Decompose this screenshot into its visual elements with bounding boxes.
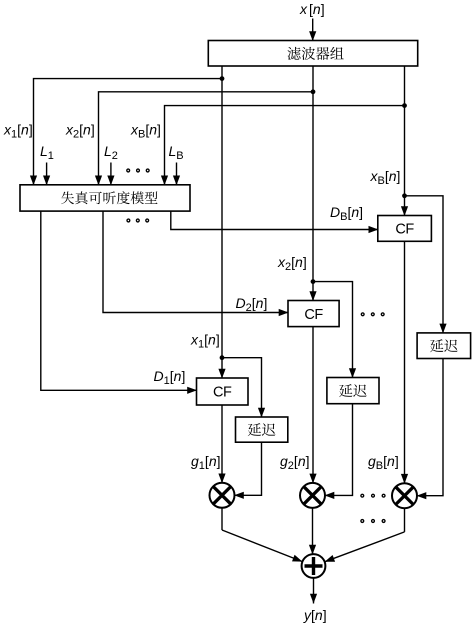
wire: xB to delay B (405, 196, 447, 334)
wire: branch x1 to model (30, 79, 222, 186)
delay B label (430, 339, 458, 352)
CF box 2 (288, 301, 339, 327)
wire: L2 input arrow (107, 163, 114, 186)
ellipsis dots right of CF2 (361, 313, 384, 316)
junction on tap 1 to delay 1 (220, 355, 225, 360)
svg-text:DB[n]: DB[n] (330, 204, 363, 223)
wire: CF 2 output to multiplier 2 (309, 327, 316, 484)
junction on tap 2 to delay 2 (311, 279, 316, 284)
wire: LB input arrow (173, 163, 180, 186)
delay 2 label (339, 384, 367, 397)
ellipsis dots between multipliers row 2 (361, 520, 385, 523)
svg-text:D1[n]: D1[n] (154, 368, 186, 387)
wire: x2 to delay 2 (313, 282, 356, 378)
model box 失真可听度模型 (20, 185, 190, 211)
svg-text:y[n]: y[n] (303, 607, 327, 623)
wire: delay B output to multiplier B (417, 359, 444, 500)
svg-text:x1[n]: x1[n] (3, 122, 33, 141)
multiplier circle 1 (x) (210, 483, 235, 508)
model label 失真可听度模型 (61, 191, 157, 204)
svg-text:CF: CF (213, 385, 232, 401)
junction on tap 3 to delay B (402, 193, 407, 198)
wire: branch xB to model (161, 106, 405, 186)
svg-text:xB[n]: xB[n] (130, 122, 161, 141)
wire: x[n] input arrow into filter bank (309, 19, 316, 42)
svg-text:LB: LB (169, 143, 184, 162)
wire: CF 1 output to multiplier 1 (218, 405, 225, 483)
multiplier circle B (x) (392, 483, 417, 508)
svg-text:x2[n]: x2[n] (277, 254, 307, 273)
wire: tap 3 vertical from filter bank down to CF B (401, 66, 408, 216)
delay box 1 延迟 (236, 417, 288, 442)
svg-text:xB[n]: xB[n] (370, 168, 401, 187)
wire: delay 1 output to multiplier 1 (234, 442, 262, 499)
CF box 1 (197, 378, 249, 405)
filter bank label 滤波器组 (287, 47, 343, 60)
ellipsis dots between multipliers row 1 (361, 494, 385, 497)
wire: tap 1 vertical from filter bank down to CF1 (218, 66, 225, 379)
svg-text:gB[n]: gB[n] (368, 453, 399, 472)
wire: D2 from model to CF2 (103, 211, 289, 316)
svg-text:D2[n]: D2[n] (236, 295, 268, 314)
svg-text:CF: CF (395, 222, 414, 238)
svg-text:x2[n]: x2[n] (65, 122, 95, 141)
svg-text:L2: L2 (104, 143, 118, 162)
wire: CF B output to multiplier B (401, 241, 408, 483)
CF box B (378, 216, 432, 242)
wire: adder output y[n] (310, 578, 317, 604)
ellipsis dots below model box (127, 219, 149, 222)
wire: D1 from model to CF1 (41, 211, 197, 394)
wire: delay 2 output to multiplier 2 (325, 404, 353, 499)
wire: L1 input arrow (43, 163, 50, 186)
multiplier circle 2 (x) (300, 483, 325, 508)
svg-text:x[n]: x[n] (299, 1, 325, 17)
delay 1 label (248, 423, 276, 436)
svg-text:g2[n]: g2[n] (280, 453, 310, 472)
delay box 2 延迟 (327, 378, 379, 404)
wire: x1 to delay 1 (222, 358, 265, 418)
svg-text:x1[n]: x1[n] (190, 332, 220, 351)
wire: multiplier 2 to adder (309, 508, 316, 555)
filter bank box 滤波器组 (208, 41, 417, 67)
wire: DB from model to CF B (171, 211, 378, 233)
delay box B 延迟 (417, 333, 471, 359)
junction on tap 3 (402, 103, 407, 108)
wire: multiplier B to adder (325, 508, 405, 562)
svg-text:g1[n]: g1[n] (191, 453, 221, 472)
ellipsis dots above model box (127, 169, 149, 172)
junction on tap 1 (220, 76, 225, 81)
junction on tap 2 (311, 89, 316, 94)
adder circle (+) (302, 554, 326, 578)
svg-text:L1: L1 (40, 143, 54, 162)
svg-text:CF: CF (304, 307, 323, 323)
wire: tap 2 vertical from filter bank down to CF2 (309, 66, 316, 301)
wire: multiplier 1 to adder (222, 508, 302, 562)
wire: branch x2 to model (95, 92, 313, 186)
